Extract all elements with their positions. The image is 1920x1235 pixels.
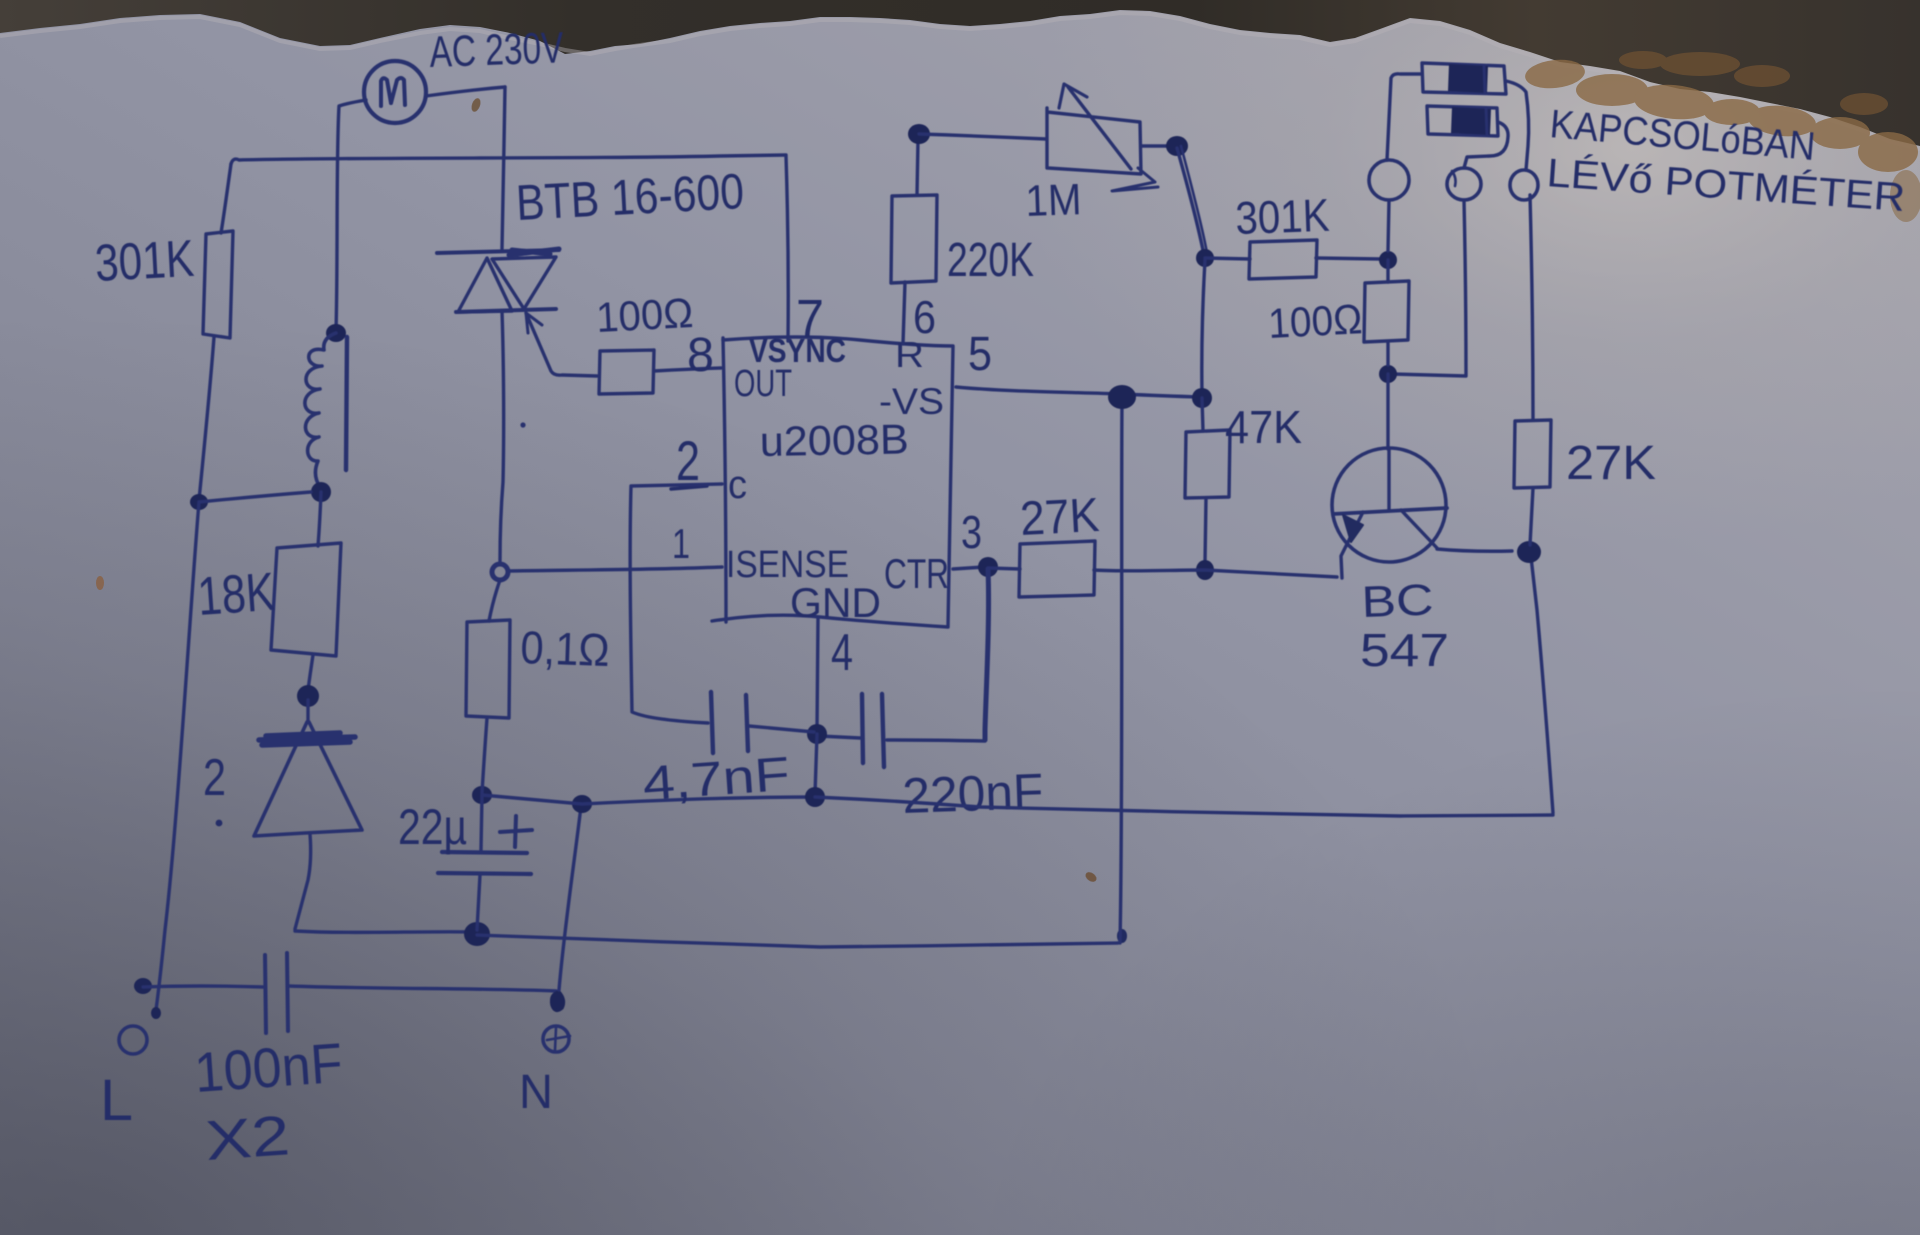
wire 100R node down to transistor top <box>1386 374 1389 449</box>
svg-text:7: 7 <box>796 289 824 349</box>
svg-text:X2: X2 <box>203 1103 291 1172</box>
junction node at inductor top <box>326 324 346 342</box>
wire node to 1M pot left <box>919 134 1046 139</box>
wire pot-left terminal up to cartridge 1 <box>1387 74 1421 160</box>
svg-text:-VS: -VS <box>879 381 944 422</box>
wire motor right lead <box>426 87 505 96</box>
junction node pin3 <box>978 557 998 577</box>
label 4,7nF <box>641 748 791 811</box>
wire 220K top lead <box>917 140 918 195</box>
wire pin3 node down to 220nF right (heavy) <box>985 569 989 740</box>
junction node 22u top <box>472 786 492 804</box>
wire from node down to L terminal <box>156 502 199 1010</box>
label 100nF <box>192 1031 344 1104</box>
svg-text:u2008B: u2008B <box>759 415 909 465</box>
label 47K <box>1225 401 1302 453</box>
capacitor C 22u electrolytic <box>438 795 531 930</box>
wire triac MT2 vertical from motor <box>502 87 505 249</box>
wire pin 2 to 4.7nF left <box>630 484 722 723</box>
resistor R 27K (mid) <box>1019 541 1095 597</box>
potentiometer in switch: terminal circles <box>1369 160 1538 200</box>
wire triac gate with arrow <box>526 313 597 376</box>
label 4 (pin) <box>831 624 853 682</box>
wire node to node horizontal <box>199 492 311 502</box>
wire diode bottom to bottom bus <box>295 834 311 929</box>
resistor R 18K <box>271 543 341 656</box>
wire 18K top lead <box>318 492 321 546</box>
svg-text:2: 2 <box>676 429 700 492</box>
label LEVO POTMETER <box>1545 150 1906 220</box>
wire corner up to collector node <box>1531 557 1553 813</box>
svg-text:100Ω: 100Ω <box>595 289 694 341</box>
junction node at 301K bottom <box>190 494 208 510</box>
label 220K <box>947 234 1034 287</box>
wire 301K top lead <box>221 164 231 233</box>
svg-text:AC 230V: AC 230V <box>429 23 565 77</box>
label N <box>519 1066 553 1119</box>
label 547 <box>1360 624 1449 676</box>
wire triac MT1 down <box>500 311 504 561</box>
svg-text:47K: 47K <box>1225 401 1302 453</box>
switch cartridge 2 with filled band <box>1427 106 1498 136</box>
label BTB 16-600 <box>515 163 746 231</box>
svg-text:OUT: OUT <box>734 363 792 405</box>
switch cartridge 1 with filled band <box>1422 63 1506 94</box>
label 5 (pin) <box>968 328 992 381</box>
wire pin 7 vertical <box>786 156 788 341</box>
svg-text:301K: 301K <box>94 230 196 293</box>
resistor R 47K <box>1185 398 1230 563</box>
wire cartridge2 right hook down to pot-middle terminal <box>1464 122 1508 168</box>
svg-text:220K: 220K <box>947 234 1034 287</box>
label OUT <box>734 363 792 405</box>
svg-text:22µ: 22µ <box>398 799 467 855</box>
wire pin 1 to triac node <box>508 567 722 571</box>
wire pin 4 vertical <box>817 618 818 730</box>
svg-text:27K: 27K <box>1019 489 1101 546</box>
label C (pin2 name) <box>728 463 747 507</box>
junction node 1M right <box>1166 136 1188 156</box>
motor M1 (AC motor) <box>364 61 426 123</box>
wire cartridge1 right hook down to pot-right terminal <box>1506 81 1529 170</box>
junction node above diode <box>297 685 319 707</box>
inductor L1 (coil with core line) <box>305 333 347 487</box>
diode D (zener-like, cathode bar and triangle) <box>254 700 362 836</box>
IC U1 U2008B body <box>712 337 953 627</box>
label BC <box>1361 576 1435 627</box>
label 22u <box>398 799 467 855</box>
label VSYNC <box>749 332 846 369</box>
transistor Q BC547 <box>1332 448 1512 578</box>
resistor R 301K (left) <box>203 231 233 338</box>
label 3 (pin) <box>961 506 982 558</box>
svg-text:5: 5 <box>968 328 992 381</box>
svg-text:8: 8 <box>687 329 714 382</box>
label U2008B <box>759 415 909 465</box>
potentiometer 1M (rheostat with arrow) <box>1047 84 1168 191</box>
svg-text:220nF: 220nF <box>901 763 1044 824</box>
resistor R 0.1ohm <box>466 620 510 718</box>
label 2 (diode designator) <box>203 749 226 826</box>
junction node pin6/1M <box>908 124 930 144</box>
label 8 (pin) <box>687 329 714 382</box>
svg-text:L: L <box>100 1068 133 1133</box>
junction node 47K bottom <box>1196 560 1214 580</box>
capacitor C 100nF X2 <box>134 953 556 1033</box>
wire 0.1ohm top lead <box>489 580 500 621</box>
label GND <box>790 579 881 626</box>
wire 301K bottom lead <box>199 337 214 500</box>
junction node pin4/220nF <box>807 724 827 744</box>
wire row y800 right segment to collector corner <box>815 797 1553 816</box>
svg-text:100nF: 100nF <box>192 1031 344 1104</box>
wire 301K node down to 47K node <box>1202 260 1205 395</box>
svg-text:4,7nF: 4,7nF <box>641 748 791 811</box>
wire node row y800 to pin4 node <box>482 795 814 804</box>
wire N up to 22u node <box>559 806 581 990</box>
label 27K (right) <box>1566 437 1656 490</box>
wire bottom bus right segment to corner <box>477 935 1118 947</box>
label -VS <box>879 381 944 422</box>
wire 18K bottom lead <box>308 655 313 690</box>
junction node collector/27K <box>1517 541 1541 563</box>
label 2 (pin) with underline <box>671 429 707 492</box>
label 301K (left) <box>94 230 196 293</box>
wire pot-middle terminal down to 100R node <box>1392 200 1466 376</box>
svg-text:3: 3 <box>961 506 982 558</box>
label 220nF <box>901 763 1044 824</box>
wire bus corner up to -VS node <box>1120 400 1122 943</box>
label CTR <box>884 550 949 597</box>
junction ring node triac/0.1ohm/pin1 <box>492 564 508 580</box>
wire 27K to emitter bus <box>1094 570 1337 577</box>
label 301K (right) <box>1235 189 1331 244</box>
svg-text:18K: 18K <box>196 562 277 627</box>
wire 0.1ohm bottom lead <box>482 718 487 793</box>
svg-text:N: N <box>519 1066 553 1119</box>
svg-text:2: 2 <box>203 749 226 807</box>
label 27K (mid) <box>1019 489 1101 546</box>
junction node bus below 22u <box>464 922 490 946</box>
wire pin4 node down to y800 row <box>815 734 817 794</box>
label KAPCSOLOBAN <box>1548 102 1817 169</box>
label 6 (pin) <box>913 291 936 343</box>
triac Q1 BTB16-600 <box>437 249 559 312</box>
junction node row/pin4 <box>805 787 825 807</box>
resistor R 27K (right) <box>1514 195 1551 545</box>
capacitor C 220nF <box>819 694 985 767</box>
svg-text:4: 4 <box>831 624 853 682</box>
label L <box>100 1068 133 1133</box>
label 1M <box>1025 175 1083 226</box>
wire pin 6 / 220K bottom lead <box>903 282 905 344</box>
label + (22u polarity) <box>500 816 532 847</box>
label 18K <box>196 562 277 627</box>
junction node pot-left/100R <box>1379 251 1397 269</box>
svg-text:CTR: CTR <box>884 550 949 597</box>
junction blob -VS/bus corner <box>1108 385 1136 409</box>
svg-text:BTB 16-600: BTB 16-600 <box>515 163 746 231</box>
svg-text:1: 1 <box>672 520 690 567</box>
wire pin 3 stub <box>953 567 984 569</box>
label 1 (pin) <box>672 520 690 567</box>
svg-text:27K: 27K <box>1566 437 1656 490</box>
ink dot stray <box>520 422 525 427</box>
label ISENSE <box>726 544 849 586</box>
label AC 230V <box>429 23 565 77</box>
wire pin 5 bus <box>956 387 1200 397</box>
resistor R 100R (right) <box>1364 260 1409 365</box>
capacitor C 4.7nF <box>711 692 814 753</box>
label 0,1ohm <box>520 621 611 676</box>
svg-text:BC: BC <box>1361 576 1435 627</box>
wire 100R to pin 8 <box>654 368 721 371</box>
label 100R <box>595 289 694 341</box>
junction node 47K top <box>1192 388 1212 408</box>
svg-text:c: c <box>728 463 747 507</box>
junction node right 301K left <box>1196 249 1214 267</box>
resistor R 220K <box>891 195 937 283</box>
wire motor left lead down to inductor node <box>336 100 366 331</box>
resistor R 301K (right) <box>1249 240 1317 279</box>
svg-text:6: 6 <box>913 291 936 343</box>
junction node N-wire top <box>572 795 592 813</box>
label 100R (right) <box>1267 295 1363 347</box>
svg-text:1M: 1M <box>1025 175 1083 226</box>
svg-text:100Ω: 100Ω <box>1267 295 1363 347</box>
svg-text:GND: GND <box>790 579 881 626</box>
wire pot-left terminal down to 301K node <box>1388 200 1389 251</box>
wire top horizontal from 301K to pin 7 corner <box>231 155 786 164</box>
terminal N circle <box>543 992 570 1052</box>
wire pin3 node to 27K <box>988 568 1020 569</box>
label X2 <box>203 1103 291 1172</box>
terminal L circle <box>119 1007 161 1054</box>
wire right 301K leads <box>1205 258 1381 259</box>
label R (pin6 name) <box>895 334 924 375</box>
resistor R 100R (gate) <box>599 350 654 394</box>
wire bottom bus left segment <box>295 931 475 932</box>
wire 1M right down to 301K node (double stroke) <box>1177 146 1207 255</box>
junction node pot-middle/100R bottom <box>1379 365 1397 383</box>
svg-text:301K: 301K <box>1235 189 1331 244</box>
svg-text:547: 547 <box>1360 624 1449 676</box>
junction node at inductor bottom <box>311 482 331 502</box>
svg-text:0,1Ω: 0,1Ω <box>520 621 611 676</box>
label 7 (pin) <box>796 289 824 349</box>
junction knot at bus corner <box>1117 929 1127 943</box>
